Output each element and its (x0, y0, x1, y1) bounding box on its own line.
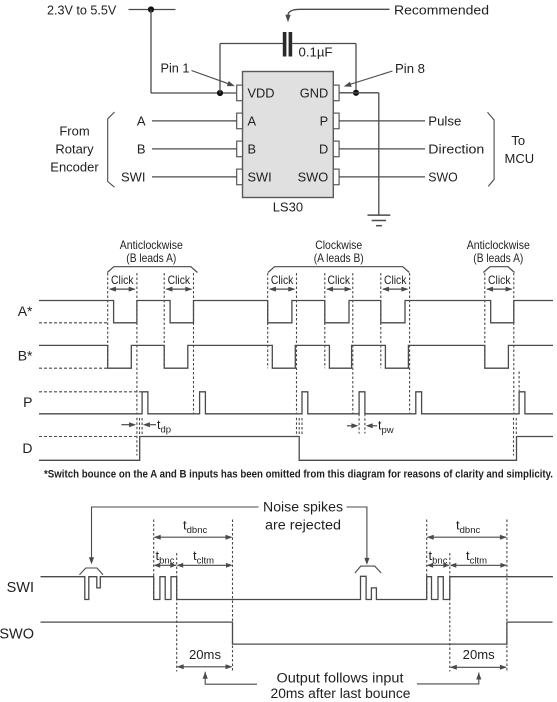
svg-text:B*: B* (18, 348, 33, 364)
svg-text:Rotary: Rotary (55, 142, 94, 157)
svg-text:Click: Click (271, 273, 294, 287)
svg-text:are rejected: are rejected (265, 517, 341, 532)
svg-text:(B leads A): (B leads A) (473, 251, 523, 265)
svg-text:20ms: 20ms (463, 647, 495, 662)
svg-text:Click: Click (488, 273, 511, 287)
svg-text:Pin 8: Pin 8 (395, 61, 425, 76)
svg-text:Encoder: Encoder (50, 160, 99, 175)
svg-text:MCU: MCU (504, 151, 534, 166)
svg-text:A: A (248, 114, 257, 129)
svg-text:(B leads A): (B leads A) (126, 251, 176, 265)
svg-text:Click: Click (168, 273, 191, 287)
svg-text:Recommended: Recommended (394, 3, 489, 18)
svg-text:SWO: SWO (0, 627, 34, 643)
svg-text:0.1µF: 0.1µF (299, 45, 333, 60)
svg-text:Click: Click (384, 273, 407, 287)
svg-text:Pin 1: Pin 1 (161, 61, 190, 76)
svg-text:*Switch bounce on the A and B: *Switch bounce on the A and B inputs has… (44, 469, 553, 481)
svg-text:VDD: VDD (248, 86, 275, 101)
svg-text:SWI: SWI (248, 170, 272, 185)
svg-text:SWI: SWI (7, 580, 34, 596)
svg-text:Pulse: Pulse (428, 113, 461, 128)
svg-text:From: From (59, 124, 89, 139)
svg-text:P: P (23, 394, 32, 410)
svg-text:2.3V to 5.5V: 2.3V to 5.5V (47, 4, 117, 18)
svg-text:(A leads B): (A leads B) (314, 251, 364, 265)
svg-text:LS30: LS30 (273, 200, 303, 215)
svg-text:D: D (22, 440, 32, 456)
svg-text:Output follows input: Output follows input (277, 671, 404, 686)
svg-text:20ms: 20ms (189, 647, 221, 662)
svg-text:Click: Click (111, 273, 134, 287)
svg-text:A*: A* (18, 303, 33, 319)
svg-text:20ms after last bounce: 20ms after last bounce (271, 686, 411, 701)
svg-text:To: To (511, 133, 525, 148)
svg-text:A: A (137, 113, 146, 128)
svg-text:D: D (319, 142, 328, 157)
svg-text:Direction: Direction (428, 141, 484, 156)
svg-text:SWO: SWO (298, 170, 329, 185)
svg-text:P: P (320, 114, 329, 129)
svg-text:B: B (248, 142, 257, 157)
svg-text:GND: GND (300, 86, 328, 101)
svg-text:B: B (137, 141, 146, 156)
svg-text:SWI: SWI (121, 169, 146, 184)
svg-text:Noise spikes: Noise spikes (263, 499, 343, 514)
svg-text:Click: Click (328, 273, 351, 287)
svg-text:SWO: SWO (428, 169, 458, 184)
